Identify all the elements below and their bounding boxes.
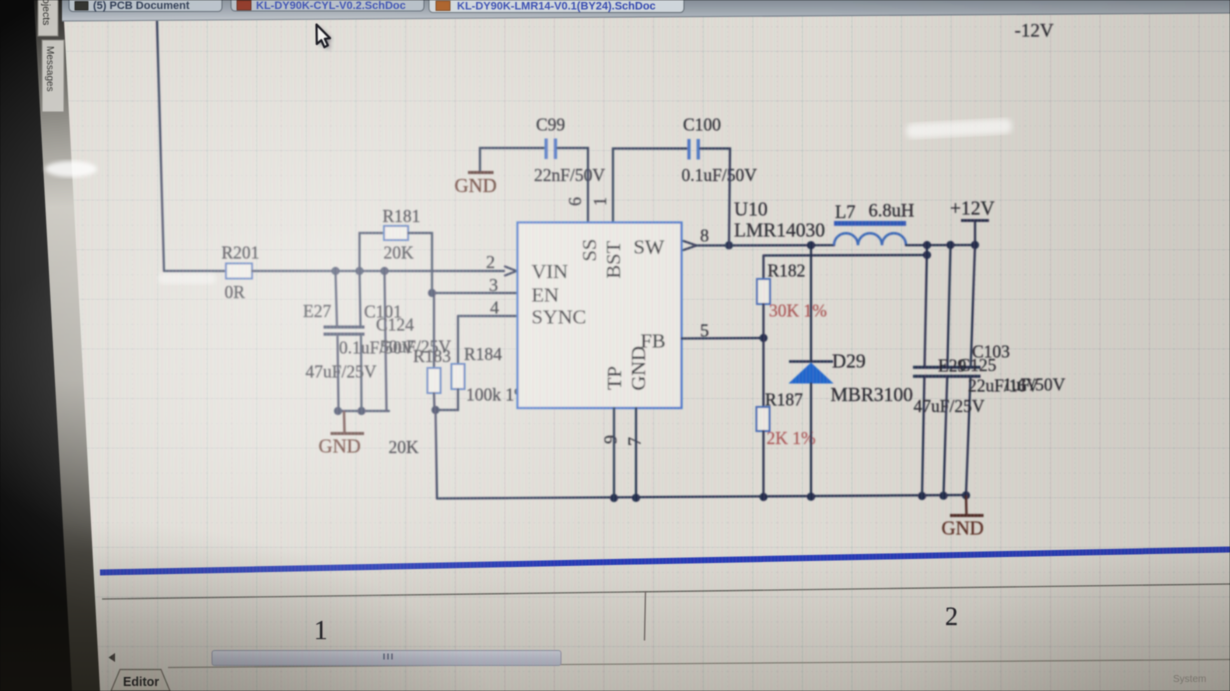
node junction R183 R184 (431, 406, 439, 414)
node junction pin9 rail (610, 494, 618, 502)
node junction pin7 rail (632, 494, 640, 502)
resistor R184 (452, 364, 465, 389)
node junction C100-SW (725, 241, 733, 249)
capacitor C124 stem (385, 271, 387, 411)
node junction +12V (971, 241, 979, 249)
capacitor C125 stem (944, 245, 951, 496)
resistor R182 (757, 279, 770, 304)
wire caps bottom (336, 410, 389, 412)
node junction EN (428, 289, 436, 297)
ground GND1 bar (331, 432, 365, 435)
diode D29 stem bottom (810, 384, 812, 497)
wire R181 to EN node (408, 233, 432, 293)
wire R187 to rail (762, 431, 764, 497)
resistor R184 wire top (457, 316, 459, 364)
ground GND3 bar (950, 514, 984, 517)
wire R181 branch up (360, 233, 385, 271)
sheet inner border line (102, 584, 1230, 599)
capacitor E29 stem (922, 245, 927, 496)
inductor L7 bar (834, 221, 906, 226)
power +12V bar (961, 219, 989, 222)
node junction E29 rail (918, 492, 926, 500)
wire R182 to FB (762, 304, 764, 338)
Editor tab (111, 670, 170, 691)
wire C99 to pin6 (558, 148, 589, 223)
wire down to ground rail (436, 410, 438, 499)
node junction C125 top (946, 241, 954, 249)
capacitor plates E27 C101 (324, 326, 365, 329)
node junction D29-SW (807, 241, 815, 249)
scrollbar left arrow (109, 653, 116, 662)
node junction VIN-C101 (355, 267, 363, 275)
tab 1 PCB Document (69, 0, 222, 12)
diode D29 triangle (789, 363, 834, 384)
wire pin1 to C100 (613, 149, 687, 223)
wire EN (432, 292, 517, 294)
ground GND2 bar (468, 171, 494, 174)
node junction C103 rail (962, 491, 970, 499)
capacitor C100 plates (687, 139, 690, 160)
pin 2 arrow VIN (505, 267, 517, 276)
capacitor C103 stem (966, 245, 975, 495)
node junction C125 rail (939, 492, 947, 500)
resistor R183 (428, 368, 441, 393)
node junction R187 rail (759, 493, 767, 501)
node junction FB (759, 334, 767, 342)
ground GND3 stem (965, 495, 968, 514)
sheet border blue line (100, 550, 1230, 573)
left panel tab Messages (42, 40, 64, 112)
resistor R183 wire bottom (433, 393, 436, 410)
wire C100 to SW node (700, 149, 730, 246)
node junction D29 rail (807, 493, 815, 501)
tab 2 SchDoc (231, 0, 424, 11)
scrollbar thumb (212, 651, 561, 666)
node junction VIN-C124 (380, 267, 388, 275)
mouse cursor (317, 25, 331, 48)
wire ground rail (437, 495, 966, 499)
wire SW output (697, 244, 834, 247)
resistor R201 (226, 264, 252, 279)
ground GND2 top riser (480, 148, 545, 173)
node junction VIN-E27 (331, 267, 339, 275)
capacitor C101 stem (360, 271, 362, 411)
capacitor C99 plates (545, 139, 548, 160)
wire pin9 TP to rail (613, 408, 615, 498)
zone divider tick (645, 591, 646, 641)
wire R184 bottom join (435, 389, 458, 410)
resistor R181 (384, 226, 408, 240)
diode D29 cathode bar (789, 360, 833, 363)
node junction E29 top (923, 241, 931, 249)
wire L7 to +12V (906, 244, 975, 246)
ground GND1 stem (343, 411, 346, 432)
capacitor E27 stem (336, 271, 339, 411)
node junction E27 bottom (334, 407, 342, 415)
wire SYNC (458, 315, 517, 317)
resistor R183 wire top (433, 293, 435, 368)
diode D29 stem top (810, 245, 812, 361)
tab 3 SchDoc active (429, 0, 684, 13)
scrollbar grip (384, 654, 392, 660)
resistor R187 (757, 407, 770, 431)
capacitor plates E29 C125 C103 (913, 366, 981, 369)
wire to R201 (164, 270, 226, 272)
wire R182 top net (764, 254, 928, 257)
wire net -12V input vertical (157, 21, 164, 271)
node junction R182 net (923, 251, 931, 259)
resistor R187 stem (762, 338, 764, 407)
power +12V stem (974, 221, 976, 246)
wire FB (682, 337, 764, 340)
resistor R182 stem (762, 256, 764, 280)
pin 8 arrow SW (684, 241, 697, 250)
document tab bar (62, 0, 1230, 21)
wire VIN net (252, 270, 504, 272)
node junction C101 bottom (357, 407, 365, 415)
inductor L7 arcs (834, 233, 906, 245)
op-amp U10 body (518, 223, 682, 409)
wire pin7 GND to rail (635, 408, 637, 498)
status top border (168, 660, 1230, 668)
left panel tab Projects (38, 0, 58, 36)
